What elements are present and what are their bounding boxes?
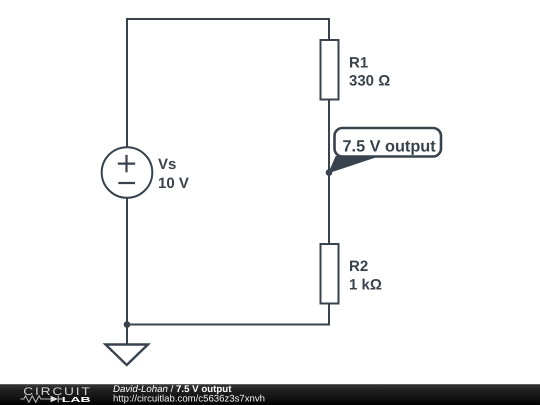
wire top horizontal: [127, 19, 329, 148]
wire ground stub: [126, 325, 128, 345]
svg-text:http://circuitlab.com/c5636z3s: http://circuitlab.com/c5636z3s7xnvh: [113, 393, 265, 404]
ground symbol triangle: [106, 345, 149, 366]
voltage source minus sign: [118, 182, 135, 184]
junction dot bottom: [124, 321, 131, 328]
wire right bottom (R2 bottom to corner): [127, 304, 329, 325]
svg-text:10 V: 10 V: [158, 175, 189, 192]
svg-text:LAB: LAB: [62, 395, 91, 404]
svg-text:R1: R1: [349, 54, 368, 71]
resistor R2 body: [321, 244, 339, 304]
logo diode triangle: [51, 396, 58, 403]
voltage source Vs circle: [102, 147, 153, 198]
wire left bottom (source bottom to corner): [126, 198, 128, 325]
voltage source plus sign: [118, 155, 135, 172]
svg-text:R2: R2: [349, 258, 368, 275]
svg-text:330 Ω: 330 Ω: [349, 73, 390, 90]
callout tail: [329, 157, 377, 173]
svg-text:1 kΩ: 1 kΩ: [349, 277, 382, 294]
resistor R1 body: [321, 40, 339, 100]
svg-text:7.5 V output: 7.5 V output: [343, 138, 437, 156]
wire right middle (R1 bottom to R2 top): [328, 100, 330, 245]
logo resistor zigzag wire: [21, 396, 63, 403]
svg-text:Vs: Vs: [158, 156, 176, 173]
node output dot: [326, 169, 333, 176]
callout box 7.5 V output: [335, 128, 442, 157]
